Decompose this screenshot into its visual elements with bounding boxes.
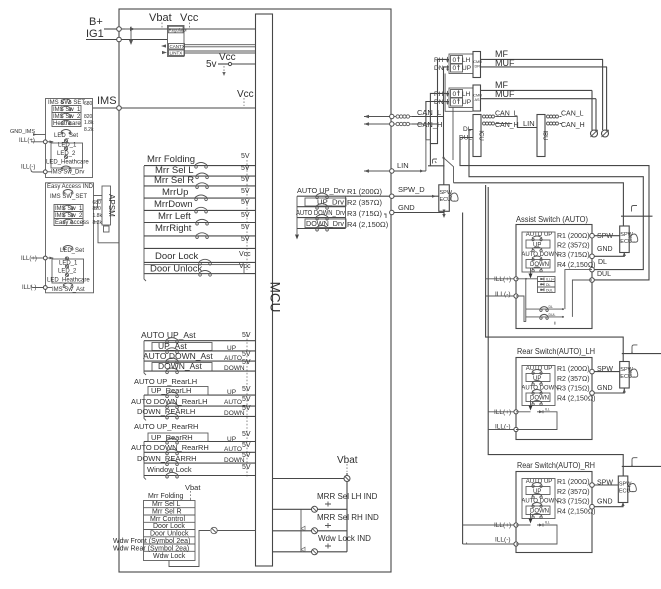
svg-text:AUTO UP: AUTO UP — [526, 232, 553, 238]
choke CAN_H — [394, 123, 396, 125]
wire ladder left — [426, 140, 431, 171]
svg-text:R1 (200Ω): R1 (200Ω) — [557, 479, 590, 486]
arrow on B+ wire — [125, 27, 131, 32]
svg-text:5V: 5V — [242, 351, 251, 358]
switch IMS Sw_1 symbol — [61, 106, 71, 110]
connector hook LH — [632, 345, 637, 352]
connector ICU — [473, 115, 481, 157]
svg-text:LED_Set: LED_Set — [54, 133, 78, 139]
svg-text:Door Lock: Door Lock — [155, 251, 199, 262]
svg-text:AUTO UP_RearRH: AUTO UP_RearRH — [134, 422, 198, 431]
wire GND from ECU — [594, 252, 624, 256]
svg-text:GND: GND — [597, 246, 613, 253]
junction GND — [390, 210, 394, 214]
svg-text:MRR Sel LH IND: MRR Sel LH IND — [317, 492, 378, 501]
wire list to MCU — [169, 531, 210, 567]
svg-text:LH: LH — [462, 91, 471, 98]
svg-text:Mrr Sel L: Mrr Sel L — [152, 501, 181, 508]
LED LED_1 2 symbol — [65, 257, 68, 260]
connector APSM — [102, 186, 111, 225]
wire CAN_H stub — [364, 123, 392, 125]
svg-text:8.2k: 8.2k — [93, 220, 103, 226]
svg-text:Vcc: Vcc — [239, 263, 251, 270]
junction GND — [590, 504, 595, 509]
svg-text:GND_IMS: GND_IMS — [10, 129, 35, 135]
connector hook — [433, 159, 438, 164]
switch DN/UP row 2 — [451, 98, 463, 106]
svg-text:820: 820 — [93, 206, 102, 212]
svg-text:Mrr Folding: Mrr Folding — [148, 493, 184, 500]
row Easy Access — [54, 219, 83, 226]
wire DUL to junction — [572, 280, 592, 317]
long rail to ILL C — [488, 187, 623, 476]
svg-text:5V: 5V — [241, 199, 250, 206]
LED LED_Heathcare symbol — [64, 155, 67, 158]
svg-text:ILL(-): ILL(-) — [495, 291, 511, 298]
wire IMS — [93, 107, 256, 109]
wire CAN_L stub — [364, 116, 392, 118]
hook near R4 — [384, 214, 386, 218]
svg-text:CMU: CMU — [473, 60, 482, 64]
row IMS Sw_2 — [52, 113, 81, 120]
wire CAN_L down — [443, 117, 445, 158]
Vbat rail — [346, 473, 348, 552]
svg-text:LIN: LIN — [397, 161, 409, 170]
svg-text:AUTO UP: AUTO UP — [526, 479, 553, 485]
LED LED_2 symbol — [64, 147, 67, 150]
svg-text:ILL(-): ILL(-) — [495, 537, 511, 544]
switch Easy Access symbol — [63, 219, 73, 223]
svg-text:Rear Switch(AUTO)_RH: Rear Switch(AUTO)_RH — [517, 461, 595, 470]
switch frame — [522, 366, 555, 406]
svg-text:IG1: IG1 — [86, 28, 104, 40]
svg-text:UP_Ast: UP_Ast — [158, 341, 187, 351]
svg-text:UP_RearRH: UP_RearRH — [151, 433, 193, 442]
svg-text:5V: 5V — [242, 359, 251, 366]
svg-text:R4 (2,150Ω): R4 (2,150Ω) — [557, 262, 595, 269]
arrow down inside — [530, 400, 532, 408]
wire ILL inside RH — [516, 525, 557, 544]
svg-text:DOWN_Ast: DOWN_Ast — [158, 361, 203, 371]
wire ECU bottom gnd — [443, 211, 445, 214]
svg-text:Mrr Control: Mrr Control — [150, 516, 185, 523]
svg-text:MrrUp: MrrUp — [162, 187, 188, 198]
svg-text:LED_Set: LED_Set — [60, 248, 84, 254]
bracket wire left — [144, 166, 146, 281]
switch block SW1 box — [46, 99, 93, 178]
svg-text:MrrDown: MrrDown — [154, 199, 193, 210]
switch IMS SW_SET 2 symbol — [63, 190, 73, 194]
wire DUL run — [460, 138, 649, 280]
block box — [516, 225, 592, 329]
svg-text:IMS Sw_Drv: IMS Sw_Drv — [51, 170, 84, 176]
svg-text:R3 (715Ω): R3 (715Ω) — [557, 499, 590, 506]
svg-text:Vbat: Vbat — [149, 12, 172, 24]
svg-text:UP: UP — [227, 436, 236, 443]
wire lower left — [526, 309, 555, 325]
wire LIN to IBU — [517, 127, 537, 129]
wire SPW_D to ECU — [394, 195, 439, 197]
wire CMU1 down — [438, 59, 450, 124]
svg-text:Wdw Lock IND: Wdw Lock IND — [318, 534, 371, 543]
row Heathcare — [52, 120, 81, 127]
svg-text:AUTO DOWN_RearRH: AUTO DOWN_RearRH — [131, 443, 209, 452]
svg-text:Vcc: Vcc — [239, 251, 251, 258]
svg-text:MrrRight: MrrRight — [155, 223, 192, 234]
arrow CANTX — [161, 44, 166, 47]
svg-text:GND: GND — [597, 385, 613, 392]
svg-text:AUTO UP_RearLH: AUTO UP_RearLH — [134, 377, 197, 386]
symbol list box — [144, 501, 196, 561]
svg-text:1.8k: 1.8k — [84, 120, 94, 126]
switch frame — [522, 232, 555, 272]
svg-text:Mrr Sel R: Mrr Sel R — [152, 509, 182, 516]
switch frame — [522, 479, 555, 519]
svg-text:5V: 5V — [242, 332, 251, 339]
svg-text:Mrr Sel R: Mrr Sel R — [154, 175, 194, 186]
node dot — [442, 157, 444, 159]
svg-text:5V: 5V — [241, 212, 250, 219]
arrow down inside — [530, 513, 532, 521]
svg-text:DUL: DUL — [597, 271, 611, 278]
row UP — [526, 374, 550, 382]
svg-text:R3 (715Ω): R3 (715Ω) — [557, 386, 590, 393]
wire CMU2 down — [452, 108, 454, 161]
svg-text:ILL(-): ILL(-) — [22, 285, 36, 291]
switch IMS Sw_Ast symbol — [63, 283, 73, 287]
svg-text:5V: 5V — [242, 431, 251, 438]
5V dashed rail — [246, 160, 248, 270]
switch IMS Sw_2 symbol — [61, 113, 71, 117]
svg-text:ILL(+): ILL(+) — [546, 278, 555, 282]
row UP_RearLH — [148, 387, 208, 396]
svg-text:0: 0 — [453, 57, 457, 64]
svg-text:R2 (357Ω): R2 (357Ω) — [557, 376, 590, 383]
svg-text:LIN: LIN — [523, 119, 535, 128]
wire GND from ECU — [594, 388, 624, 393]
svg-text:LH: LH — [462, 57, 471, 64]
svg-text:Assist Switch (AUTO): Assist Switch (AUTO) — [516, 215, 588, 224]
svg-text:5V: 5V — [241, 224, 250, 231]
IC U1 MCU — [256, 14, 273, 566]
wire ILL(+) inner — [516, 278, 538, 280]
block box — [516, 358, 592, 440]
svg-text:AUTO DOWN_Drv: AUTO DOWN_Drv — [296, 208, 345, 217]
svg-text:ILL: ILL — [545, 408, 550, 412]
svg-text:MUF: MUF — [495, 89, 515, 99]
bracket with GND arrow — [296, 196, 298, 234]
bracket LEDs — [300, 509, 302, 552]
svg-text:LED_2: LED_2 — [57, 151, 76, 157]
wire CAN to LIN joint — [495, 117, 517, 128]
junction IMS — [117, 106, 122, 111]
svg-text:5V: 5V — [241, 236, 250, 243]
svg-text:DL: DL — [598, 259, 607, 266]
row UP_Ast — [152, 343, 212, 351]
switch frame 2 — [449, 88, 473, 108]
junction LIN — [390, 169, 394, 173]
junction IG1 — [117, 37, 122, 42]
dashed arrow Vcc — [189, 23, 191, 28]
svg-text:Door Lock: Door Lock — [153, 523, 185, 530]
bracket Ast group — [144, 341, 146, 375]
svg-text:UP_RearLH: UP_RearLH — [151, 386, 191, 395]
arrow down inside — [530, 268, 532, 276]
LED MRR Sel LH — [273, 508, 347, 510]
switch DN/UP row 1 — [451, 64, 463, 72]
junction CAN_L — [390, 114, 394, 118]
bracket RearRH group — [144, 442, 146, 480]
svg-text:IMS SW_SET: IMS SW_SET — [50, 194, 87, 200]
wire B+ to module — [104, 28, 119, 30]
connector hook RH — [632, 458, 637, 465]
connector IBU — [537, 115, 545, 157]
svg-text:0: 0 — [453, 65, 457, 72]
junction B+ — [117, 27, 122, 32]
connector CMU AS — [473, 85, 481, 111]
svg-text:CANTX: CANTX — [170, 44, 185, 49]
svg-text:R2 (357Ω): R2 (357Ω) — [557, 489, 590, 496]
wire CMU2 down — [430, 93, 449, 143]
LED on rail — [344, 476, 350, 482]
row UP_Drv — [305, 198, 346, 206]
row IMS Sw_1 — [54, 205, 83, 212]
long rail to ILL A — [462, 213, 464, 545]
svg-text:DL: DL — [549, 305, 554, 309]
LED MRR Sel RH — [273, 530, 347, 532]
svg-text:5V: 5V — [241, 188, 250, 195]
svg-text:DL: DL — [546, 283, 551, 287]
row DOWN — [526, 506, 550, 515]
svg-text:LINTX: LINTX — [170, 51, 183, 56]
resistor SPW ECU (driver) — [439, 185, 450, 212]
switch DL lower — [526, 307, 563, 312]
connector hook assist — [632, 206, 638, 212]
bus vertical — [345, 196, 347, 228]
switch IMS SW_SET symbol — [61, 99, 71, 103]
LED LED_1 symbol — [64, 139, 67, 142]
switch IMS Sw_1 2 symbol — [63, 205, 73, 209]
block box — [516, 472, 592, 553]
svg-text:DN: DN — [434, 99, 444, 106]
junction GND — [590, 391, 595, 396]
switch RH/LH row 1 — [451, 56, 463, 64]
wire IG1 into module — [121, 39, 168, 41]
row IMS Sw_2 — [54, 212, 83, 219]
svg-text:Heathcare: Heathcare — [53, 121, 81, 127]
LED row — [537, 524, 543, 527]
switch DUL lower — [526, 314, 563, 319]
svg-text:8.2k: 8.2k — [84, 127, 94, 133]
wire GND from ECU — [594, 503, 623, 507]
row spare 5V — [144, 247, 256, 249]
row UP — [526, 487, 550, 495]
svg-text:680: 680 — [84, 101, 93, 107]
svg-text:0: 0 — [453, 91, 457, 98]
arrow LINTX — [162, 51, 167, 54]
wire CAN_L to node — [412, 116, 443, 118]
terminal ILL(-) — [43, 286, 47, 290]
wire SPW to ECU — [594, 235, 619, 237]
svg-text:CAN_H: CAN_H — [561, 122, 585, 129]
wire 5v node — [218, 63, 229, 65]
svg-text:GND: GND — [597, 499, 613, 506]
svg-text:AUTO DOWN_RearLH: AUTO DOWN_RearLH — [131, 397, 208, 406]
switch RH/LH row 2 — [451, 90, 463, 98]
svg-text:5V: 5V — [242, 386, 251, 393]
motor MF/MUF right 2 — [592, 90, 596, 130]
svg-text:ECU: ECU — [440, 197, 452, 203]
svg-text:R3 (715Ω): R3 (715Ω) — [347, 209, 382, 218]
switch symbols — [532, 483, 542, 488]
svg-text:5V: 5V — [241, 165, 250, 172]
choke ICU CAN — [483, 115, 486, 118]
wire ILL(-) inner — [516, 296, 526, 322]
terminal ILL(+) — [43, 140, 47, 144]
svg-text:ILL(-): ILL(-) — [21, 165, 35, 171]
switch IMS Sw_Drv symbol — [61, 166, 71, 170]
choke CAN_L — [394, 116, 396, 118]
svg-text:AS: AS — [475, 98, 481, 102]
svg-text:AUTO DOWN_Ast: AUTO DOWN_Ast — [143, 351, 213, 361]
svg-text:Door Unlock: Door Unlock — [150, 531, 189, 538]
svg-text:DUL: DUL — [549, 313, 556, 317]
svg-text:UP: UP — [227, 389, 236, 396]
wire LIN right — [394, 170, 426, 172]
svg-text:Mrr Folding: Mrr Folding — [147, 154, 195, 165]
wire ILL inside LH — [516, 412, 557, 430]
terminal ILL(-) — [43, 170, 47, 174]
wire CANTX to MCU — [185, 44, 256, 46]
svg-text:MCU: MCU — [268, 282, 283, 313]
svg-text:MRR Sel RH IND: MRR Sel RH IND — [317, 513, 379, 522]
svg-text:5V: 5V — [242, 442, 251, 449]
row UP — [526, 240, 550, 248]
svg-text:Wdw Lock: Wdw Lock — [153, 553, 186, 560]
LED group box — [52, 259, 84, 283]
svg-text:SPW: SPW — [597, 233, 613, 240]
junction CAN_H — [390, 122, 394, 126]
regulator U2 box — [168, 26, 185, 57]
arrow down IG1 — [130, 31, 132, 43]
switch frame 1 — [449, 54, 473, 74]
svg-text:5V: 5V — [242, 396, 251, 403]
CAN TX block — [169, 44, 185, 50]
svg-text:Rear Switch(AUTO)_LH: Rear Switch(AUTO)_LH — [517, 347, 595, 356]
svg-text:Wdw Rear (Symbol 2ea): Wdw Rear (Symbol 2ea) — [113, 546, 189, 553]
wire DL run — [469, 130, 643, 270]
svg-text:RH: RH — [434, 57, 444, 64]
svg-text:R4 (2,150Ω): R4 (2,150Ω) — [557, 396, 595, 403]
svg-text:Vcc: Vcc — [180, 12, 199, 24]
svg-text:R3 (715Ω): R3 (715Ω) — [557, 252, 590, 259]
LED Wdw Lock — [273, 551, 347, 553]
svg-text:B+: B+ — [89, 16, 103, 28]
junction GND — [590, 254, 595, 259]
svg-text:Easy Access IND: Easy Access IND — [47, 184, 94, 190]
svg-text:AUTO UP: AUTO UP — [526, 366, 553, 372]
bus segment — [428, 165, 445, 167]
junction SPW — [590, 233, 595, 238]
switch block SW2 box — [46, 183, 94, 293]
dashed arrow Vbat — [161, 23, 163, 28]
svg-text:ICU: ICU — [478, 130, 484, 140]
row IMS Sw_1 — [52, 106, 81, 113]
switch IMS Sw_2 2 symbol — [63, 212, 73, 216]
svg-text:ILL(+): ILL(+) — [494, 276, 511, 283]
junction SPW — [590, 369, 595, 374]
LED group box — [51, 143, 83, 168]
svg-text:Door Unlock: Door Unlock — [150, 264, 203, 275]
svg-text:IMS Sw_Ast: IMS Sw_Ast — [52, 287, 85, 293]
svg-text:DN: DN — [434, 65, 444, 72]
svg-text:AUTO UP_Drv: AUTO UP_Drv — [297, 186, 345, 195]
row DOWN_Ast — [152, 363, 212, 372]
motor MF/MUF right 1 — [603, 59, 607, 130]
LED lock indicator — [211, 527, 217, 533]
row DOWN — [526, 260, 550, 269]
switch Heathcare symbol — [61, 120, 71, 124]
resistor SPW ECU (assist) — [620, 226, 630, 253]
svg-text:DOWN_Drv: DOWN_Drv — [306, 219, 344, 228]
svg-text:SPW_D: SPW_D — [398, 185, 425, 194]
junction DUL — [590, 278, 595, 283]
junction DL — [590, 267, 595, 272]
svg-text:CMU: CMU — [473, 94, 482, 98]
wire SPW to ECU — [594, 371, 619, 373]
svg-text:UP_Drv: UP_Drv — [317, 198, 344, 207]
terminal ILL(+) — [43, 256, 47, 260]
svg-text:Vbat: Vbat — [185, 483, 201, 492]
wire RH aux out — [622, 464, 661, 466]
svg-text:R2 (357Ω): R2 (357Ω) — [347, 198, 382, 207]
LED LED_Heathcare 2 symbol — [65, 273, 68, 276]
svg-text:R1 (200Ω): R1 (200Ω) — [557, 233, 590, 240]
row UP_RearRH — [148, 433, 208, 442]
svg-text:Vcc: Vcc — [219, 52, 236, 63]
svg-text:0: 0 — [453, 99, 457, 106]
svg-text:Vcc: Vcc — [237, 89, 254, 100]
svg-text:5V: 5V — [242, 464, 251, 471]
switch symbols — [532, 236, 542, 241]
svg-text:UP: UP — [462, 99, 471, 106]
wire ECU top up — [443, 158, 445, 185]
LED row — [537, 410, 543, 413]
dashed arrow 5v — [223, 66, 225, 74]
svg-text:IMS: IMS — [97, 95, 117, 107]
5V dashed rail 2 — [246, 332, 248, 477]
long rail to ILL B — [486, 185, 624, 362]
svg-text:R1 (200Ω): R1 (200Ω) — [557, 366, 590, 373]
svg-text:ILL(+): ILL(+) — [19, 138, 35, 144]
row DOWN_Drv — [305, 219, 346, 228]
switch LED_Set 2 symbol — [63, 246, 73, 250]
wire LINTX to MCU — [185, 50, 256, 52]
svg-text:R1 (200Ω): R1 (200Ω) — [347, 187, 382, 196]
wire block2 to APSM — [94, 195, 103, 197]
svg-text:5V: 5V — [242, 405, 251, 412]
wire CMU1 to ICU — [445, 74, 472, 112]
LED rows — [538, 277, 556, 293]
svg-text:ILL(+): ILL(+) — [21, 256, 37, 262]
switch LED_Set symbol — [61, 130, 71, 134]
row DOWN — [526, 393, 550, 402]
wire top indicator — [273, 478, 344, 480]
switch Mrr Folding — [195, 163, 208, 169]
svg-text:UP: UP — [462, 65, 471, 72]
svg-text:GND: GND — [398, 203, 415, 212]
wire LH aux out — [622, 351, 661, 353]
